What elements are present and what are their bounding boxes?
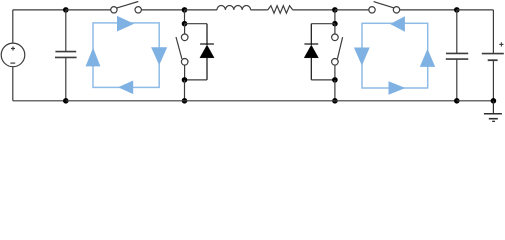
wire: top bus, S4 to C2 (400, 9, 457, 11)
resistor R1 (268, 6, 293, 14)
wire: bottom bus, source corner to C1 (13, 100, 66, 102)
current arrow right-right (points up) (420, 49, 435, 67)
diode D2 (304, 24, 318, 80)
wire: node B down-stub (334, 10, 336, 24)
switch S3 (right leg, open) (332, 24, 343, 80)
junction: bottom bus / C1 (63, 98, 69, 104)
current arrow right-left (points down) (354, 48, 370, 66)
switch S2 (left leg, open) (176, 24, 188, 80)
wire: top bus, node A to L1 (185, 9, 218, 11)
wire: node A down-stub (184, 10, 186, 24)
junction: bottom bus / leg1 (182, 98, 188, 104)
wire: leg2 to bottom bus (334, 80, 336, 101)
wire: D2 bottom to junction (311, 79, 335, 81)
current arrow left-top (points right) (117, 16, 134, 32)
junction: node B on top bus (332, 7, 338, 13)
junction: D2/S3 top (332, 21, 338, 27)
current arrow left-left (points up) (86, 48, 101, 67)
current arrow right-bottom (points right) (389, 81, 406, 95)
junction: top bus / C2 (454, 7, 460, 13)
wire: top bus, C2 to C3 corner (457, 9, 494, 11)
current loop left (blue square) (93, 23, 159, 88)
current loop right (blue square) (362, 23, 428, 88)
label: + (output polarity) (499, 42, 503, 46)
current arrow left-right (points down) (151, 47, 167, 65)
wire: top bus, C1 to switch S1 (66, 9, 111, 11)
ground (484, 101, 502, 122)
wire: stub to D2 top (311, 23, 335, 25)
wire: bottom bus, C2 to ground node (457, 100, 494, 102)
capacitor C1 (55, 10, 77, 101)
diode D1 (200, 24, 214, 80)
junction: ground node (491, 98, 497, 104)
wire: bottom bus, leg1 to leg2 (185, 100, 335, 102)
capacitor C3 (polarized, output) (482, 10, 504, 101)
capacitor C2 (446, 10, 469, 101)
junction: bottom bus / leg2 (332, 98, 338, 104)
inductor L1 (217, 5, 251, 9)
voltage source V1 (1, 43, 25, 67)
wire: L1 to R1 (251, 9, 268, 11)
junction: bottom bus / C2 (454, 98, 460, 104)
wire: source to top bus (12, 10, 14, 43)
switch S1 (top left, open) (111, 2, 142, 14)
wire: D1 bottom to junction (185, 79, 208, 81)
junction: node A on top bus (182, 7, 188, 13)
junction: top bus / C1 (63, 7, 69, 13)
wire: stub to D1 top (185, 23, 208, 25)
current arrow right-top (points left) (390, 16, 405, 31)
switch S4 (top right, open) (369, 2, 400, 13)
wire: top bus, S1 to node A (142, 9, 185, 11)
wire: R1 to node B (293, 9, 335, 11)
junction: S2/D1 top (182, 21, 188, 27)
wire: bottom bus, leg2 to C2 (335, 100, 457, 102)
wire: bottom bus, C1 to leg1 (66, 100, 185, 102)
wire: source bottom to bottom bus (12, 67, 14, 101)
wire: top bus, node B to S4 (335, 9, 369, 11)
wire: top bus, source corner to C1 (13, 9, 66, 11)
junction: S2/D1 bottom (182, 77, 188, 83)
current arrow left-bottom (points left) (118, 81, 133, 95)
wire: leg1 to bottom bus (184, 80, 186, 101)
junction: D2/S3 bottom (332, 77, 338, 83)
